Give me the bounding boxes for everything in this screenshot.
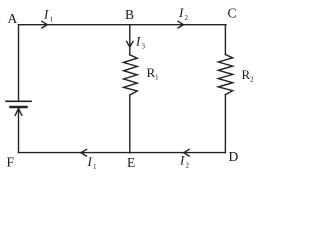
svg-text:I: I xyxy=(87,154,93,169)
svg-text:1: 1 xyxy=(93,163,97,171)
svg-text:I: I xyxy=(178,5,184,20)
svg-text:2: 2 xyxy=(186,162,190,170)
svg-text:2: 2 xyxy=(185,14,189,22)
wire R1 to E (middle branch lower) xyxy=(129,95,131,153)
svg-text:C: C xyxy=(228,6,237,21)
svg-text:1: 1 xyxy=(155,74,159,82)
wire B down to R1 (middle branch) xyxy=(129,25,131,55)
svg-text:D: D xyxy=(229,149,239,164)
resistor R2 zigzag xyxy=(218,55,232,95)
svg-text:3: 3 xyxy=(142,43,146,51)
current arrow I2 head (rightward on wire B-C) xyxy=(178,21,184,28)
battery V1 long plate (positive) xyxy=(6,100,31,102)
battery V1 short plate (negative) xyxy=(11,106,27,108)
wire battery bottom to F (left side) xyxy=(18,108,20,153)
svg-text:A: A xyxy=(8,11,18,26)
current arrow I2 head (leftward on wire D-E) xyxy=(184,149,190,156)
wire B-C (top right segment) xyxy=(130,24,226,26)
svg-text:2: 2 xyxy=(250,76,254,84)
current arrow I1 head (leftward on wire E-F) xyxy=(81,149,87,156)
svg-text:F: F xyxy=(7,155,15,170)
svg-text:E: E xyxy=(127,155,135,170)
wire E-D (bottom right segment) xyxy=(130,152,226,154)
wire A-B (top left segment) xyxy=(19,24,130,26)
wire F-E (bottom left segment) xyxy=(19,152,130,154)
current arrow I3 head (downward on middle branch) xyxy=(127,41,133,47)
svg-text:1: 1 xyxy=(50,16,54,24)
wire C down to R2 (right side) xyxy=(224,25,226,55)
current arrow I1 head (rightward on wire A-B) xyxy=(42,21,48,28)
wire R2 to D (right side lower) xyxy=(224,95,226,153)
resistor R1 zigzag xyxy=(124,55,138,95)
svg-text:I: I xyxy=(135,34,141,49)
svg-text:I: I xyxy=(43,7,49,22)
wire A to battery top (left side) xyxy=(18,25,20,101)
battery current arrow head (upward) xyxy=(15,109,22,116)
svg-text:B: B xyxy=(125,7,134,22)
svg-text:I: I xyxy=(179,153,185,168)
